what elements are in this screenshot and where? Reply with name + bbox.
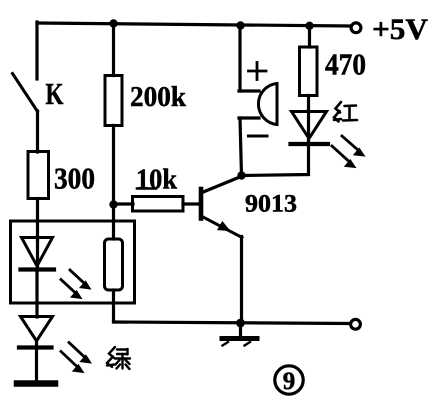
node junction rail / 200k [109,19,117,27]
svg-text:K: K [46,76,64,111]
svg-text:300: 300 [54,161,95,196]
wire switch to R300 [36,111,39,152]
wire rail to 200k [112,23,115,76]
wire rail to switch [35,22,38,79]
svg-text:9013: 9013 [245,191,297,218]
transistor Q1 emitter line with arrow [202,217,242,238]
wire 200k to node B [112,126,115,206]
wire R300 to coupler box / LED1 anode [36,199,39,241]
LED1 emission arrow 2 [61,280,82,299]
node junction collector / buzzer / LED return [237,171,245,179]
node junction 200k / 10k / box resistor [109,200,117,208]
wire rail down to buzzer plus [238,24,241,91]
green LED D2 [19,317,53,383]
transistor Q1 9013 base bar [199,189,204,219]
green LED emission arrow 1 [69,343,91,364]
label minus sign of buzzer [249,135,268,138]
LED1 in box [21,238,55,318]
wire 10k to base [183,202,200,205]
resistor 470 body [300,47,318,96]
node junction rail / 470 [305,22,313,30]
label green (lv) character [107,347,130,369]
wire node C to red LED cathode [242,143,309,176]
svg-text:200k: 200k [130,81,187,113]
transistor Q1 collector line [202,177,241,193]
wire node B to 10k [112,202,133,205]
wire bottom ground rail [114,322,349,324]
switch K [13,74,38,112]
red LED D1 [291,96,329,145]
power terminal +5V [351,23,361,33]
svg-text:10k: 10k [136,164,178,196]
resistor 200k body [105,76,122,126]
ground left [17,380,55,387]
svg-text:9: 9 [283,368,296,395]
LED1 emission arrow 1 [70,270,91,289]
ground middle [222,323,257,346]
wire top +5V rail [37,23,349,26]
optocoupler box [11,221,135,303]
green LED emission arrow 2 [61,352,84,373]
label 10k [136,164,178,196]
wire emitter down to ground rail [240,237,243,324]
red LED emission arrow 2 [332,146,356,168]
resistor 10k body [133,197,184,212]
wire rail to 470 [308,25,311,47]
resistor R300 body [28,152,49,199]
red LED emission arrow 1 [342,136,365,156]
wire stub to buzzer plus terminal [239,89,259,92]
figure number 9 circled [275,366,303,395]
label red (hong) character [334,102,357,122]
svg-text:470: 470 [325,47,366,82]
label plus sign of buzzer [249,63,267,80]
svg-text:+5V: +5V [372,13,428,46]
ground terminal circle [351,319,361,329]
wire box resistor to ground rail [112,290,115,322]
node junction emitter / ground rail [236,319,245,328]
wire buzzer minus down to node C [239,118,259,176]
buzzer HTD piezo element [258,84,277,125]
node junction rail / buzzer [236,21,244,29]
photoresistor in box [105,239,123,290]
wire node B into box resistor [112,205,115,239]
